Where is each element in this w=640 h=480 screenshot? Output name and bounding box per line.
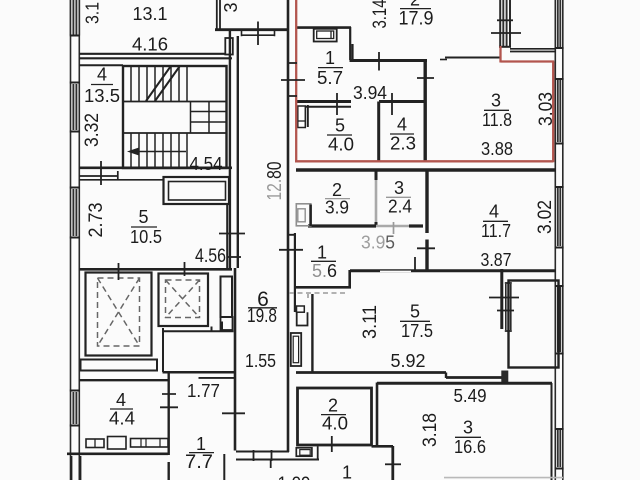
gray dashed old wall bbox=[289, 292, 348, 294]
wall between rooms 4.0 and 2.3 bbox=[377, 102, 380, 162]
room17.5 bottom wall bbox=[296, 371, 446, 374]
svg-text:4.54: 4.54 bbox=[190, 153, 223, 174]
fraction line bbox=[390, 133, 414, 135]
stair bottom wall bbox=[79, 167, 232, 170]
elevator shaft 2 bbox=[159, 274, 209, 327]
svg-text:1.09: 1.09 bbox=[278, 474, 311, 480]
corridor bottom threshold bbox=[236, 452, 319, 460]
fraction line bbox=[400, 8, 431, 10]
dim line balcony y33 bbox=[491, 32, 521, 34]
svg-text:2.3: 2.3 bbox=[390, 134, 416, 154]
svg-text:1: 1 bbox=[325, 48, 335, 68]
tick wall x425 y78 bbox=[417, 77, 434, 79]
vent shaft box bbox=[221, 277, 233, 318]
svg-text:3.32: 3.32 bbox=[81, 113, 103, 147]
floor wall y170 full bbox=[296, 168, 556, 172]
corridor door threshold top bbox=[242, 31, 275, 36]
svg-text:4: 4 bbox=[397, 115, 407, 135]
svg-text:4.56: 4.56 bbox=[195, 246, 226, 267]
wall corner kitchen black bbox=[309, 205, 312, 227]
tick gray wall x393 bbox=[393, 222, 395, 234]
svg-text:5.7: 5.7 bbox=[317, 67, 343, 88]
tick wall x169 y394 bbox=[162, 393, 176, 395]
corridor left wall upper (y31-268) bbox=[229, 31, 231, 268]
wall hall1/room16.6 divider bbox=[391, 446, 394, 480]
svg-text:5.92: 5.92 bbox=[391, 350, 426, 371]
svg-text:3.11: 3.11 bbox=[359, 305, 381, 339]
tick corridor wall top x258 bbox=[257, 22, 259, 46]
svg-text:2.4: 2.4 bbox=[388, 197, 412, 217]
room10.5 top wall bbox=[79, 171, 164, 180]
tick wall y101 x337 bbox=[336, 93, 338, 115]
room17.9 left wall bbox=[350, 27, 352, 60]
svg-text:4.0: 4.0 bbox=[328, 135, 354, 155]
tick hall4.56 wall y233 bbox=[219, 233, 245, 235]
closet under stairs (double box) bbox=[164, 177, 230, 204]
WC basin box bbox=[297, 312, 308, 325]
fraction line bbox=[400, 320, 430, 322]
svg-text:3: 3 bbox=[221, 2, 241, 12]
svg-text:13.5: 13.5 bbox=[84, 86, 120, 106]
stair direction arrow bbox=[130, 151, 186, 153]
appliance room4.0 top-left bbox=[298, 106, 306, 128]
balcony wall top-right (window band) bbox=[499, 0, 511, 47]
room4.4 top wall bbox=[79, 379, 168, 381]
WC right wall bbox=[311, 294, 313, 372]
svg-text:3.02: 3.02 bbox=[534, 200, 556, 234]
hall5.6 bottom wall bbox=[295, 286, 351, 289]
svg-text:3: 3 bbox=[463, 418, 473, 438]
svg-text:5: 5 bbox=[138, 207, 148, 227]
kitchen counter gray bbox=[296, 204, 311, 226]
wall below elevator2 horizontal bbox=[163, 322, 234, 332]
fraction line bbox=[318, 67, 343, 69]
room17.9 bottom wall bbox=[350, 59, 428, 62]
wall y57 to balcony bbox=[445, 57, 500, 59]
svg-text:4.0: 4.0 bbox=[322, 414, 348, 434]
bathtub bbox=[291, 333, 301, 366]
fraction line bbox=[325, 198, 350, 200]
svg-text:5: 5 bbox=[335, 116, 345, 136]
loggia box bbox=[509, 281, 559, 368]
fraction line bbox=[311, 260, 336, 262]
tick corridor wall y413 bbox=[222, 412, 245, 414]
red stub at balcony bbox=[499, 46, 501, 63]
svg-text:3.95: 3.95 bbox=[361, 233, 395, 253]
room3.9 bottom wall black-gray-black bbox=[308, 224, 376, 227]
tick room2 bottom x332 bbox=[331, 436, 333, 452]
tick balcony wall y20 bbox=[497, 19, 513, 21]
wall room3.9/2.4 divider (old gray) bbox=[375, 171, 378, 180]
red top line horizontal bbox=[501, 60, 555, 62]
bottom stubs bbox=[223, 454, 225, 480]
bar below elevator 1 bbox=[81, 360, 158, 371]
corridor left wall lower (y268-450) bbox=[234, 268, 237, 451]
window W2 left (y84-130) bbox=[70, 83, 80, 132]
svg-text:4.4: 4.4 bbox=[109, 409, 135, 429]
window R4 right (y287-352) bbox=[555, 286, 564, 354]
wall face right of corridor bbox=[294, 233, 296, 312]
fraction line bbox=[110, 408, 133, 410]
svg-text:7.7: 7.7 bbox=[185, 452, 213, 473]
door leaf rect bbox=[225, 38, 233, 55]
svg-text:3.18: 3.18 bbox=[419, 413, 441, 447]
svg-text:1.55: 1.55 bbox=[245, 350, 276, 371]
svg-text:17.5: 17.5 bbox=[401, 320, 433, 341]
svg-text:4: 4 bbox=[116, 390, 126, 410]
wall corridor-top horizontal y28-31 bbox=[215, 28, 287, 31]
room2-4.0 box bbox=[298, 388, 372, 445]
svg-text:5.6: 5.6 bbox=[312, 260, 337, 281]
window R5 right (y430-467) bbox=[555, 429, 564, 469]
svg-text:4: 4 bbox=[489, 202, 499, 222]
fraction line bbox=[483, 220, 508, 222]
stair flight divider upper bbox=[123, 101, 227, 103]
fraction line bbox=[248, 307, 277, 309]
wall room2.4 right with door gap bbox=[425, 171, 428, 270]
room17.5 right wall bbox=[500, 269, 503, 329]
rung corridor y63 bbox=[287, 62, 297, 64]
stair treads upper flight bbox=[131, 67, 187, 102]
stub corridor to wall face bbox=[287, 234, 295, 236]
tick wall x427 y248 bbox=[417, 247, 435, 249]
wall rooms 4.0/2.3 top bbox=[297, 100, 351, 103]
tick wall x393 y464 bbox=[385, 463, 401, 465]
tick corridor bottom x271 bbox=[270, 460, 272, 468]
hall1.77 top wall bbox=[163, 371, 236, 374]
tick loggia wall y310 bbox=[497, 310, 514, 312]
fraction line bbox=[386, 196, 411, 198]
svg-text:5.49: 5.49 bbox=[454, 385, 487, 406]
tick room17.5 top x415 bbox=[414, 257, 416, 270]
room16.6 right wall inner face bbox=[551, 383, 553, 480]
right outer wall edges bbox=[555, 0, 563, 480]
room4.4 bottom wall bbox=[67, 452, 168, 455]
wall room2.3 right / room11.8 left bbox=[424, 61, 427, 162]
red corridor line vertical bbox=[295, 0, 297, 161]
svg-text:1: 1 bbox=[342, 463, 352, 480]
nook top wall bbox=[296, 26, 351, 29]
tick loggia wall y297 bbox=[489, 297, 519, 299]
WC toilet bbox=[297, 306, 305, 312]
wall right of room2 to hall bbox=[372, 445, 394, 448]
nook counter outer bbox=[314, 29, 337, 42]
tick elevator hall x118 bbox=[118, 263, 120, 280]
elevator shaft 1 bbox=[86, 273, 152, 356]
svg-text:16.6: 16.6 bbox=[454, 436, 486, 457]
stair winder steps right bbox=[191, 102, 210, 134]
window R2 right (y80-142) bbox=[555, 79, 564, 144]
svg-text:3: 3 bbox=[491, 91, 501, 111]
left outer wall edges bbox=[71, 0, 80, 480]
wall room13.5 top at left bbox=[79, 64, 123, 66]
svg-text:3.1: 3.1 bbox=[82, 2, 103, 24]
svg-text:10.5: 10.5 bbox=[130, 226, 162, 247]
stair up-run diagonal bbox=[146, 67, 180, 102]
wall room11.7 bottom / room17.5 top bbox=[350, 269, 556, 272]
fraction line bbox=[484, 109, 509, 111]
tick elevator hall x185 bbox=[184, 262, 186, 276]
room16.6 top wall bbox=[377, 382, 552, 385]
elevator hall top wall bbox=[79, 268, 232, 271]
tick wall x169 y407 bbox=[160, 406, 178, 408]
room16.6 bottom faint line bbox=[444, 477, 563, 479]
tick hall4.56 wall y257 bbox=[227, 256, 241, 258]
stair landing divider lower bbox=[123, 132, 227, 134]
sink below room2 bbox=[296, 448, 312, 456]
svg-text:13.1: 13.1 bbox=[133, 4, 168, 24]
wall room13.1 bottom (double) bbox=[79, 53, 232, 55]
stair top wall bbox=[110, 55, 232, 57]
svg-text:11.8: 11.8 bbox=[482, 109, 512, 130]
nook counter inner bbox=[317, 31, 334, 39]
svg-text:3.87: 3.87 bbox=[481, 249, 512, 270]
tick corridor door y250 bbox=[279, 249, 303, 251]
fraction line bbox=[131, 226, 157, 228]
svg-text:19.8: 19.8 bbox=[247, 306, 277, 327]
window W1 left (y0-35) bbox=[70, 0, 80, 36]
door dash room17.5 top bbox=[380, 269, 411, 272]
red right line vertical bbox=[552, 62, 554, 163]
wall hall4.56 right bbox=[226, 204, 228, 268]
red bottom line horizontal bbox=[295, 160, 553, 162]
tick wall13.5 top x101 bbox=[100, 161, 102, 185]
fraction line bbox=[455, 436, 481, 438]
svg-text:4: 4 bbox=[97, 65, 107, 85]
svg-text:3.9: 3.9 bbox=[325, 198, 349, 218]
svg-text:3: 3 bbox=[394, 178, 404, 198]
tick room17.9 wall x379 bbox=[378, 52, 380, 71]
stair enclosure box bbox=[123, 66, 227, 168]
svg-text:3.14: 3.14 bbox=[370, 0, 391, 29]
svg-text:3.88: 3.88 bbox=[481, 138, 513, 159]
fraction line bbox=[327, 134, 352, 136]
tick wall y101 x392 bbox=[391, 93, 393, 115]
hall1.77 top wall lower line bbox=[199, 377, 236, 379]
svg-text:12.80: 12.80 bbox=[263, 162, 286, 201]
svg-text:4.16: 4.16 bbox=[132, 35, 168, 55]
window W3 left (y189-236) bbox=[70, 188, 80, 238]
inner wall line below bbox=[306, 106, 351, 108]
wall room4.0 right thick second face bbox=[376, 383, 379, 447]
svg-text:3.03: 3.03 bbox=[535, 92, 557, 126]
corridor right wall full bbox=[287, 0, 290, 452]
window R1 right (y0-48) bbox=[555, 0, 564, 48]
svg-text:3.94: 3.94 bbox=[353, 83, 387, 103]
svg-text:17.9: 17.9 bbox=[399, 8, 434, 29]
svg-text:2.73: 2.73 bbox=[85, 203, 107, 238]
fraction line bbox=[321, 414, 346, 416]
fraction line bbox=[91, 84, 113, 86]
balcony window mid bbox=[505, 283, 512, 331]
svg-text:11.7: 11.7 bbox=[481, 220, 511, 241]
step wall left bbox=[348, 270, 351, 287]
room4.4 cabinets bbox=[86, 439, 104, 448]
rung corridor y96 bbox=[287, 95, 297, 97]
svg-text:1.77: 1.77 bbox=[187, 381, 220, 401]
wall yB lower right bbox=[446, 376, 502, 379]
wall room13.1 right vertical bbox=[217, 0, 220, 29]
window W4 left (y392-424) bbox=[70, 391, 80, 426]
wall below elevator2 x163 bbox=[162, 328, 164, 372]
tick corridor door y80 bbox=[281, 79, 305, 81]
svg-text:2: 2 bbox=[328, 396, 338, 416]
wall room4.4/room7.7 divider bbox=[167, 373, 169, 455]
wall y49 right of balcony bbox=[510, 49, 556, 52]
svg-text:5: 5 bbox=[410, 302, 420, 322]
stair treads lower flight bbox=[131, 133, 187, 167]
fraction line bbox=[189, 452, 214, 454]
window R3 right (y188-246) bbox=[555, 187, 564, 248]
